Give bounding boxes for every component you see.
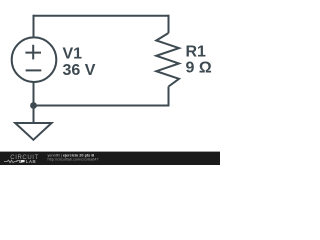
V1 plus sign [25,45,41,60]
V1 minus sign [26,69,42,71]
wire: from V1 bottom down to junction [33,81,35,105]
svg-text:9 Ω: 9 Ω [186,59,212,76]
wire: left vertical from top wire down to V1 circle [33,15,35,38]
resistor R1 zigzag [156,33,179,87]
wire: top horizontal from V1 top to R1 top [34,15,169,17]
footer black bar [0,152,220,165]
svg-text:V1: V1 [63,46,83,63]
wire: resistor bottom lead to bottom wire [168,87,170,107]
svg-text:LAB: LAB [26,159,36,164]
junction dot [30,102,37,109]
CircuitLab logo: LAB [21,160,25,162]
CircuitLab logo: waveform [4,160,24,162]
svg-text:36 V: 36 V [63,62,96,79]
svg-text:http://circuitlab.com/c/cxba64: http://circuitlab.com/c/cxba647 [48,157,99,161]
ground symbol [15,123,51,140]
wire: right vertical from top wire down to resistor [168,15,170,33]
voltage source V1 circle [12,37,57,82]
wire: from junction down to ground [33,106,35,124]
wire: bottom horizontal from junction to R1 bottom [34,105,169,107]
svg-text:R1: R1 [186,43,207,60]
